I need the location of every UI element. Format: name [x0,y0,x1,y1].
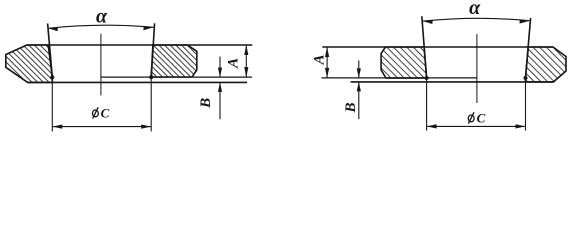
right figure: centerline [476,34,478,103]
right figure: junction dot right [524,76,528,80]
left figure: phi-C dimension line with arrows [52,125,151,129]
left figure: cone left edge (slant, extended up) [48,24,53,78]
svg-text:C: C [101,106,110,121]
right figure: phi-C extension line right [525,78,527,131]
right figure: cone left edge (slant, extended up) [422,16,427,78]
left figure: top surface line [27,44,253,46]
right figure: junction dot left [425,76,429,80]
left figure: junction dot right [149,75,153,79]
left figure: cone part section (hatched, right half) [151,45,197,77]
right figure: alpha dimension arc with arrows [423,18,530,24]
left figure: cone right edge (slant, extended up) [151,23,154,77]
svg-text:α: α [469,0,481,19]
right figure: cone right edge (slant, extended up) [526,18,531,78]
left figure: phi-C extension line left [51,77,53,131]
left figure: dimension A line with arrows [244,45,248,77]
right figure: cone bottom line / A-B extension [322,77,477,79]
right figure: cone part section (hatched, left half) [381,47,427,78]
left figure: seat ring section (hatched, left half) [6,45,53,82]
left figure: junction dot left [50,75,54,79]
right figure: seat ring section (hatched, right half) [526,47,567,82]
right figure: label phi (drawn) [468,112,474,123]
left figure: phi-C extension line right [150,77,152,131]
right figure: dimension A line with arrows [325,47,329,78]
left figure: alpha dimension arc with arrows [48,25,154,31]
right figure: seat bottom line / B extension [351,81,554,83]
svg-text:α: α [96,5,108,27]
right figure: phi-C extension line left [426,78,428,131]
svg-text:B: B [198,98,214,109]
left figure: centerline [100,34,102,96]
svg-text:B: B [343,102,359,113]
left figure: seat bottom line / B extension [28,81,247,83]
right figure: dimension B leaders with arrows [357,60,361,119]
left figure: cone bottom line / A-B extension [101,76,252,78]
right figure: phi-C dimension line with arrows [427,124,526,128]
svg-text:A: A [226,58,242,69]
left figure: dimension B leaders with arrows [218,57,222,120]
svg-text:C: C [477,110,486,125]
svg-text:A: A [311,54,327,65]
right figure: top surface line [322,46,553,48]
left figure: label phi (drawn) [93,107,99,118]
